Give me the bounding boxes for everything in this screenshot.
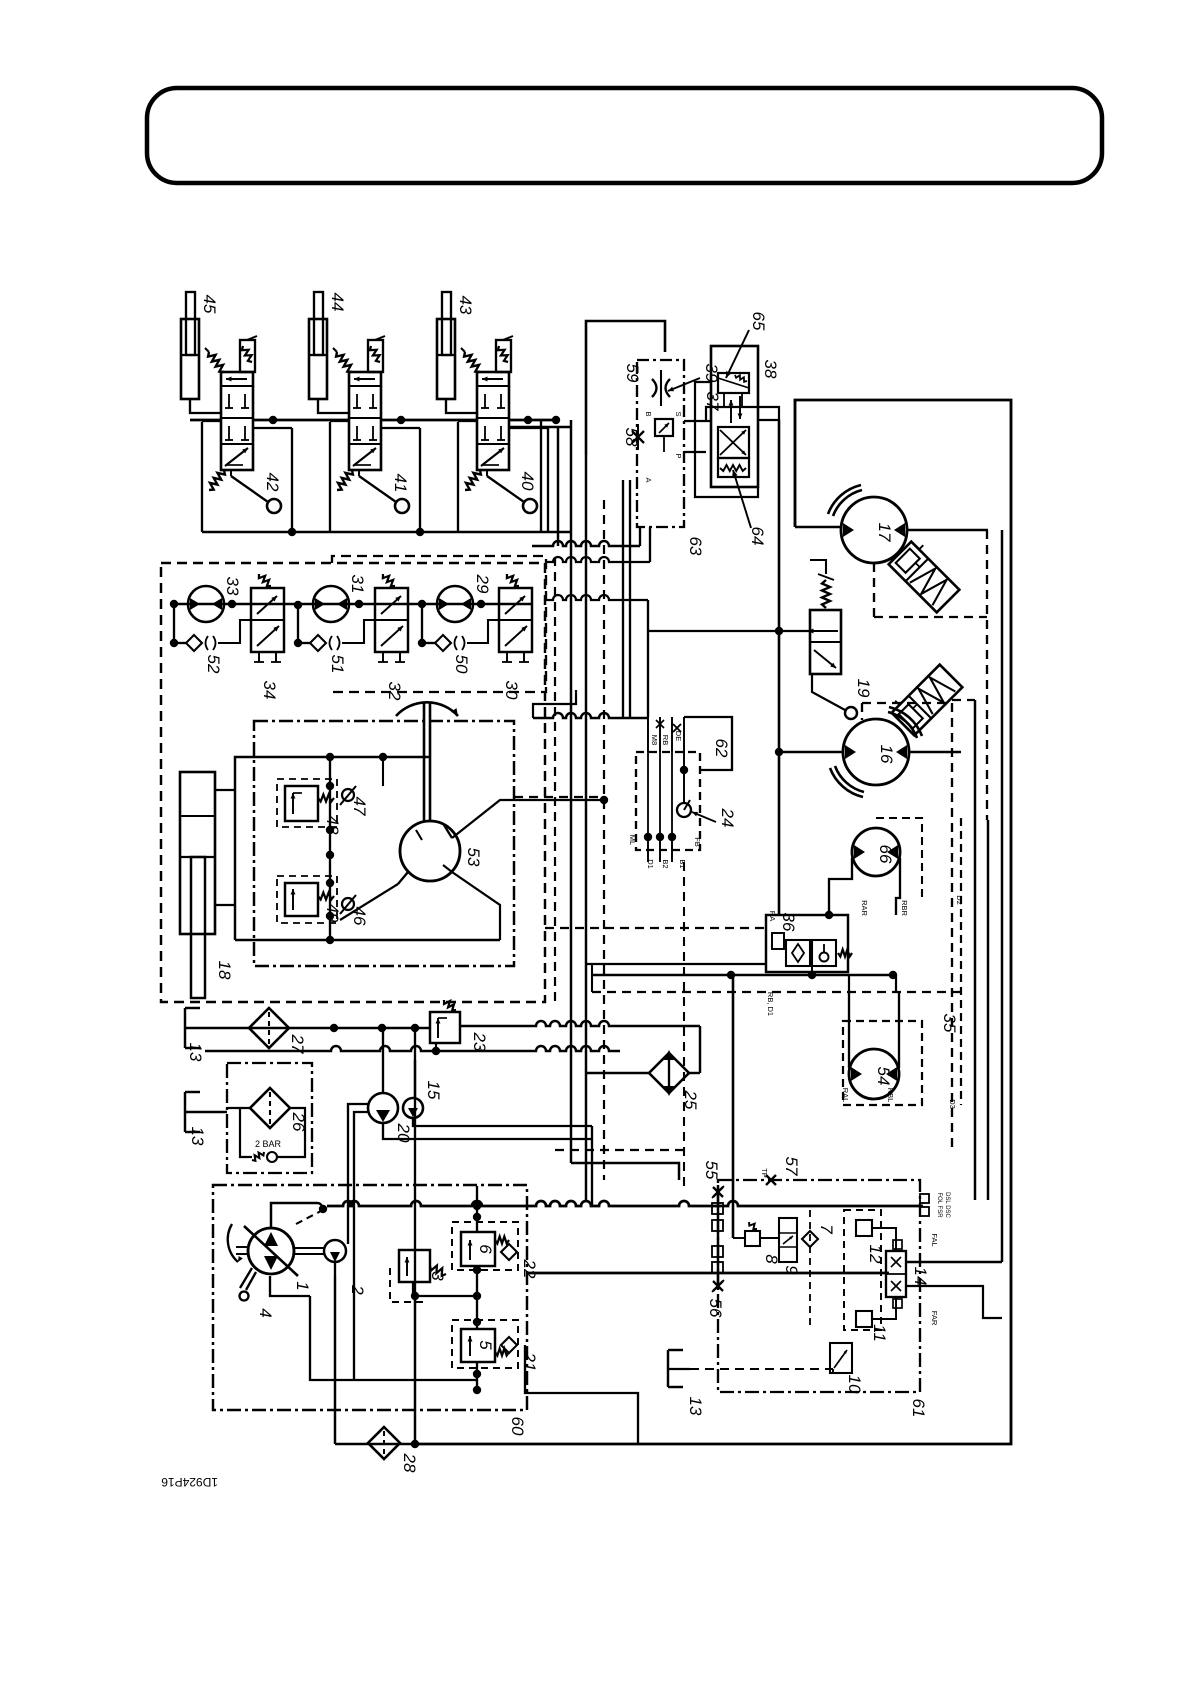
svg-text:56: 56 [706,1299,725,1318]
hline y600 [546,595,648,600]
svg-text:P: P [674,453,683,458]
port 55 [712,1185,724,1286]
long line y1206 [327,1201,923,1206]
cylinder 43 [437,292,455,399]
check 21 [501,1337,517,1353]
hydraulic motor 17 [828,485,907,563]
svg-text:RB: RB [661,735,670,745]
svg-text:22: 22 [520,1259,539,1279]
terminal stubs top [647,717,649,752]
svg-text:14: 14 [911,1267,930,1286]
svg-text:62: 62 [712,739,731,758]
pump 15 [403,1098,423,1118]
dashed box valve 3 [390,1268,428,1302]
steering arc arrow [396,702,458,716]
svg-text:2 BAR: 2 BAR [255,1139,282,1149]
block 62 internal verticals [647,752,649,837]
riser x812 [811,966,813,975]
svg-text:40: 40 [518,472,537,491]
filter 27 [249,1008,289,1048]
check/orifice 50 [435,635,465,651]
riser x648 to block 62 [647,600,649,717]
svg-text:53: 53 [464,848,483,867]
valve 19 top wire [810,560,826,574]
ports to cylinder 18 [215,789,235,791]
svg-text:10: 10 [845,1375,864,1394]
vertical pair x623 x630 [622,480,624,717]
hydraulic motor 66 [852,828,900,876]
relief valve 5 [461,1329,509,1362]
pump 20 [368,1093,398,1123]
svg-text:11: 11 [870,1324,889,1342]
throttle 59 [652,379,657,397]
port 56 [713,1281,723,1291]
svg-text:44: 44 [328,293,347,312]
valve 11 [856,1311,872,1327]
cylinder 45 [181,292,199,399]
filter 26 [250,1088,290,1128]
block 62 outline [684,717,732,770]
check 46 [342,898,354,910]
svg-text:DSL DSC: DSL DSC [944,1192,950,1218]
check/orifice 52 [186,635,216,651]
directional valve 40 [461,336,537,513]
wires around valve 38 [695,382,758,497]
pump 20/15 output lines [383,1123,592,1139]
svg-text:D3: D3 [948,1099,957,1109]
dashed vertical x684 low [683,862,685,1190]
relief valve 49 [285,883,334,916]
orifice 58 [632,431,644,443]
steering column [423,703,426,821]
port squares on x718 [712,1203,723,1214]
svg-text:4: 4 [256,1308,275,1317]
svg-text:36: 36 [779,913,798,932]
valve 9 [779,1218,797,1262]
hline y546 hop [532,541,640,546]
svg-text:B: B [644,411,653,416]
check 7 [802,1231,818,1247]
valve 12 [856,1220,872,1236]
steering outline path [235,757,330,940]
long line y1273 [527,1272,889,1275]
vertical dashed x604 [603,500,605,1180]
bus line B (y532) lower tie [202,531,571,534]
dash-dot box 63 [637,360,684,527]
svg-text:M8: M8 [650,735,659,745]
dash-dot box steering [254,721,514,966]
svg-text:63: 63 [686,537,705,556]
wire cylinder 45 to valve 42 [190,399,221,413]
wire FAL [906,1261,1002,1263]
svg-text:31: 31 [348,575,367,594]
dashed vertical x961 [960,818,962,1105]
swash dashed link [296,1211,321,1224]
enclosure box for valve 42 [202,421,292,532]
leader 65 [726,330,749,378]
link 63 to 38 lower [684,451,706,453]
end ports y1200 [920,1194,929,1203]
hline y562 [546,557,650,562]
svg-text:B1: B1 [678,859,687,868]
svg-text:9: 9 [782,1265,801,1275]
wire cylinder 43 to valve 40 [446,399,477,413]
title box (empty rounded rectangle) [147,88,1102,183]
svg-text:A: A [644,477,653,482]
svg-text:13: 13 [188,1127,207,1146]
svg-text:6: 6 [476,1244,495,1254]
pump 20 suction elbows [348,1104,368,1244]
svg-text:D2: D2 [955,895,964,905]
svg-text:55: 55 [702,1161,721,1180]
valve 23 bottom stub [435,1043,437,1051]
stub y700 to x975 [952,699,975,701]
wire cylinder 44 to valve 41 [318,399,349,413]
svg-text:42: 42 [263,473,282,492]
wires motor 66 [829,858,852,915]
hline y1028 [205,1027,430,1030]
dashed box valve 5 [452,1320,518,1368]
feed outline to control block [586,321,665,455]
tank 13 manifold [667,1350,669,1387]
svg-text:28: 28 [400,1453,419,1473]
svg-text:51: 51 [328,655,347,674]
gauge stub [683,752,685,803]
svg-text:35: 35 [940,1014,959,1033]
svg-text:FAR: FAR [930,1311,939,1326]
tank 13 lower [184,1092,186,1132]
svg-text:57: 57 [782,1157,801,1176]
check 22 [501,1244,517,1260]
inner dashed box motors [332,556,546,692]
dashed box around 66 [876,818,922,898]
svg-text:13: 13 [686,1397,705,1416]
dashed box valve 6 [452,1222,518,1270]
riser x541 between buses [540,420,542,532]
vertical x558 [557,427,559,546]
pump1 control line to manifold [271,1203,317,1228]
valve 8 [745,1231,760,1246]
hline y964 [586,963,766,965]
wires to bottom bus [334,1276,336,1444]
hline y1073 through filter 25 [586,1072,649,1074]
right outer frame [415,400,1011,1444]
svg-text:16: 16 [877,745,896,764]
relief valve 3 [399,1250,446,1296]
brake for motor 17 [889,537,964,612]
valve 30 [499,574,532,662]
dash-dot box 61 [718,1180,920,1392]
wires 12-14 [872,1228,896,1251]
wire motor16 right [909,751,961,754]
check/orifice 51 [310,635,340,651]
svg-text:18: 18 [215,961,234,980]
svg-text:S: S [674,411,683,416]
svg-text:50: 50 [452,655,471,674]
line y992 dashed [592,991,961,993]
steering unit 53 [400,821,460,881]
svg-text:TP: TP [760,1168,769,1178]
wires motor 54 [848,1049,850,1068]
svg-text:FOL FSR: FOL FSR [936,1192,942,1218]
svg-text:1D924P16: 1D924P16 [161,1475,218,1489]
main pump 1 [228,1224,298,1301]
line y975 [592,974,893,977]
svg-text:52: 52 [204,655,223,674]
svg-text:12: 12 [866,1245,885,1264]
x port symbol [673,724,681,732]
wires under 36 to RAL RBL [848,975,850,992]
directional valve 42 [205,336,281,513]
valve block 36 [766,915,852,972]
svg-text:38: 38 [761,360,780,379]
arrow 39 [668,378,700,391]
svg-text:66: 66 [876,845,895,864]
charge pump 2 down line [334,1262,336,1276]
svg-text:60: 60 [508,1417,527,1436]
motor 29 [437,586,473,622]
bottom bus [335,1443,415,1446]
port stub A from box 63 [639,527,641,546]
dash-dot box 60 [213,1185,527,1410]
svg-text:17: 17 [875,523,894,542]
hline y1163 [571,1163,679,1180]
valve column wiring [476,1206,478,1232]
leader 24 [692,812,716,822]
svg-text:2: 2 [348,1284,367,1295]
orifice 57 [766,1175,776,1185]
line y928 dashed [545,927,766,929]
riser x592 [591,1126,593,1206]
terminal block [636,752,700,850]
motor 33 [188,586,224,622]
directional valve 41 [333,336,409,513]
svg-text:ML: ML [628,835,637,845]
leader 64 [733,470,751,528]
valve 34 [251,574,284,662]
wire motor16 left [779,751,843,754]
dashed box around 49 [277,876,337,923]
dashed vertical x952 [951,703,953,1152]
svg-text:15: 15 [424,1081,443,1100]
port stub B from box 63 [649,527,651,562]
svg-text:3: 3 [428,1271,447,1281]
svg-text:RA: RA [768,911,777,921]
relief valve 48 [285,786,334,821]
hline y1026 from valve 23 to filter 25 riser [460,1021,700,1026]
solid vertical x988 lower [987,820,989,1200]
svg-text:5: 5 [476,1340,495,1350]
wire motor17 right [907,529,988,532]
svg-text:58: 58 [622,428,641,447]
svg-text:46: 46 [350,907,369,926]
outer dashed box left [161,563,545,1002]
link 63 to 38 P line [684,420,711,422]
svg-text:7: 7 [817,1224,836,1234]
dashed box around 48 [277,779,337,827]
bus line A (y420) across valves 42/41/40 [190,419,221,422]
svg-text:64: 64 [748,527,767,546]
motor row bus y604 [174,603,532,606]
cylinder 18 [180,772,215,998]
hydraulic motor 16 [830,707,922,797]
svg-text:RAR: RAR [860,900,869,916]
svg-text:54: 54 [874,1067,893,1086]
svg-text:34: 34 [260,681,279,700]
compensator 37 [655,419,673,436]
pilot valve 19 [808,574,857,719]
filter 28 [368,1427,400,1459]
svg-text:FB: FB [693,837,702,847]
hline y715 hop [533,713,648,718]
charge pump 2 [324,1240,346,1262]
svg-text:B2: B2 [661,859,670,868]
relief valve 6 [461,1232,509,1266]
pump shaft link [294,1247,324,1249]
svg-text:43: 43 [456,296,475,315]
left vertical feed x779 [778,420,781,915]
links check to valve [218,620,251,643]
enclosure box for valve 40 [458,421,548,532]
svg-text:21: 21 [520,1352,539,1372]
cylinder 44 [309,292,327,399]
svg-text:41: 41 [391,474,410,493]
dashed box 35 around motor 54 [843,1021,922,1105]
svg-text:47: 47 [350,797,369,816]
vertical dashed x555 [554,557,556,1002]
tank 13 upper [184,1008,186,1048]
pump feed lines [382,1028,384,1093]
wire motor17 left [795,526,841,529]
port squares on 14 [893,1240,902,1249]
dash-dot box 26 [227,1063,312,1173]
hydraulic motor 54 [849,1049,899,1099]
dashed box 12/11 [844,1210,881,1330]
check 47 [342,789,354,801]
motor row lower links [173,604,175,643]
svg-text:RB, D1: RB, D1 [766,992,775,1016]
dashed line y1369 [690,1368,833,1370]
vertical x586 [585,455,587,1201]
shuttle valve 14 [886,1251,906,1297]
return line y1051 [205,1046,620,1051]
hline y1150 dashed [555,1149,684,1151]
filter 25 [649,1050,689,1096]
svg-text:45: 45 [200,295,219,314]
svg-text:FAL: FAL [930,1233,939,1246]
valve 32 [375,574,408,662]
wiring 8-9 [733,1237,745,1239]
solenoid valve 38 block [711,346,758,487]
brake for motor 16 [887,660,962,735]
wire FAR [906,1286,1002,1318]
svg-text:DE: DE [674,731,683,741]
hline y797 dashed [514,796,604,798]
dashed vertical x987 [986,530,988,820]
vertical x571 [570,420,572,1163]
gauge 24 [677,803,691,817]
svg-text:1: 1 [293,1281,312,1290]
svg-text:33: 33 [223,577,242,596]
pump1 bottom wiring [270,1276,310,1296]
svg-text:30: 30 [502,681,521,700]
relief valve 23 [430,1000,460,1043]
enclosure box for valve 41 [330,421,420,532]
terminal dots [644,833,652,841]
svg-text:23: 23 [470,1032,489,1052]
wire into valve 19 [648,630,810,632]
svg-text:65: 65 [749,312,768,331]
svg-text:RBR: RBR [900,900,909,916]
steering internal wiring [329,757,331,940]
valve 10 [830,1343,852,1373]
svg-text:32: 32 [385,682,404,701]
box 26 wiring [227,1107,250,1109]
steering links [452,800,604,838]
riser x733 to manifold [732,975,735,1238]
bus line A2 (y427) [509,426,571,429]
hline y1393 [525,1345,638,1444]
dashed links motors to brakes [873,563,875,617]
svg-text:19: 19 [854,679,873,698]
svg-text:24: 24 [718,808,737,828]
svg-text:29: 29 [473,574,492,594]
motor 31 [313,586,349,622]
svg-text:13: 13 [186,1043,205,1062]
svg-text:61: 61 [909,1399,928,1418]
solid vertical x975 [974,700,976,1200]
svg-text:59: 59 [623,364,642,383]
hline y1296 [415,1295,477,1297]
